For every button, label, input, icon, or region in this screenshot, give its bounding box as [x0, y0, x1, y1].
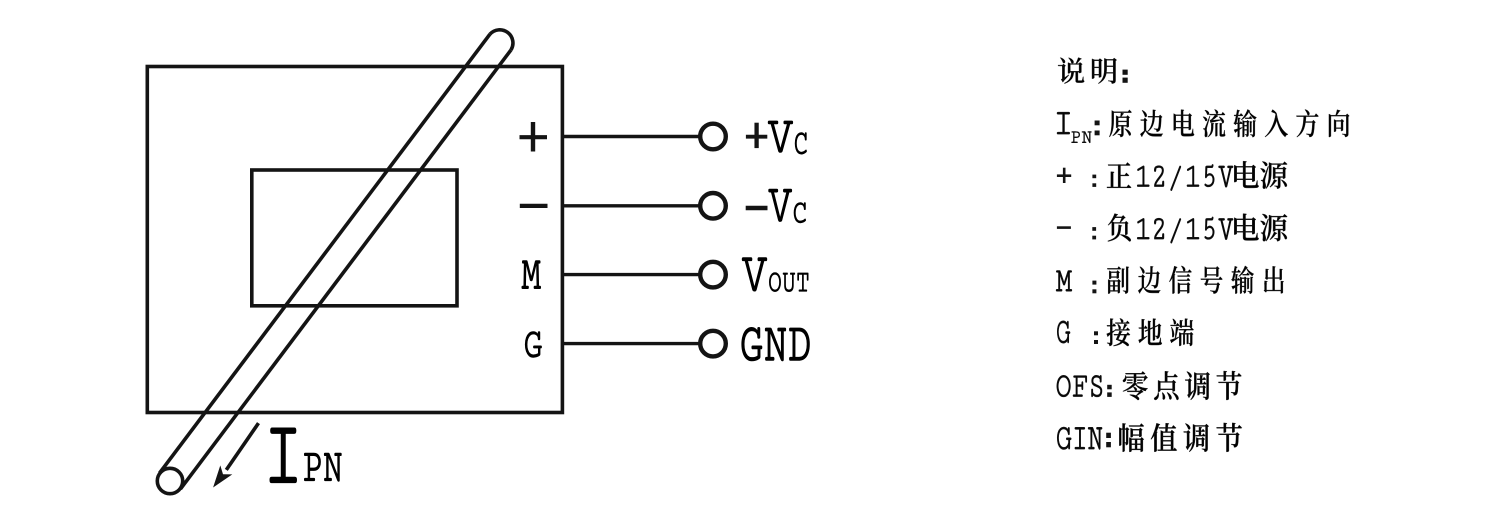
label -Vc minus [746, 206, 768, 211]
legend G symbol [1057, 321, 1070, 343]
primary conductor bar through window [160, 30, 513, 489]
legend plus symbol [1057, 168, 1071, 183]
legend G colon [1094, 331, 1098, 344]
label -Vc subscript C [794, 202, 806, 223]
wire +Vc [562, 135, 699, 138]
legend M text [1107, 266, 1283, 294]
legend minus symbol [1057, 226, 1071, 229]
terminal +Vc [700, 124, 726, 150]
terminal GND [700, 331, 726, 357]
legend GIN symbol [1057, 427, 1102, 449]
legend minus text 12/15V [1137, 217, 1233, 243]
legend M symbol [1056, 271, 1072, 291]
wire Vout [562, 273, 699, 276]
label IPN letter I [270, 428, 297, 484]
pin label M [522, 260, 542, 289]
label -Vc V [768, 189, 792, 222]
legend plus colon [1092, 175, 1096, 187]
legend GIN colon [1106, 433, 1111, 448]
legend M colon [1092, 281, 1096, 294]
pin label + [520, 122, 548, 152]
core window opening [252, 170, 457, 306]
legend OFS text [1123, 371, 1242, 400]
legend G text [1107, 318, 1194, 346]
legend minus text 负 [1108, 214, 1131, 242]
wire GND [562, 342, 699, 345]
label IPN subscript PN [304, 453, 342, 482]
pin label G [525, 331, 542, 358]
label Vout subscript OUT [769, 272, 808, 292]
terminal Vout [700, 262, 726, 288]
legend IPN colon [1095, 121, 1100, 136]
label +Vc subscript C [795, 132, 807, 154]
legend plus text 电源 [1234, 161, 1287, 189]
current direction arrow [213, 423, 258, 487]
legend GIN text [1119, 423, 1242, 452]
wire -Vc [562, 204, 699, 207]
legend title 说明： [1058, 58, 1128, 84]
terminal -Vc [700, 193, 726, 219]
label GND [741, 327, 809, 361]
primary conductor end face [157, 468, 182, 493]
pin label - [520, 204, 548, 208]
label +Vc V [768, 121, 793, 153]
label +Vc plus [746, 123, 767, 148]
legend OFS colon [1107, 385, 1112, 397]
legend plus text 12/15V [1137, 165, 1233, 191]
legend OFS symbol [1057, 376, 1102, 397]
legend plus text 正 [1107, 162, 1131, 187]
legend minus text 电源 [1234, 214, 1287, 242]
sensor body outline [147, 67, 562, 413]
legend IPN symbol [1057, 112, 1091, 143]
legend IPN text [1109, 109, 1349, 137]
legend minus colon [1092, 227, 1096, 239]
label Vout V [742, 257, 767, 291]
